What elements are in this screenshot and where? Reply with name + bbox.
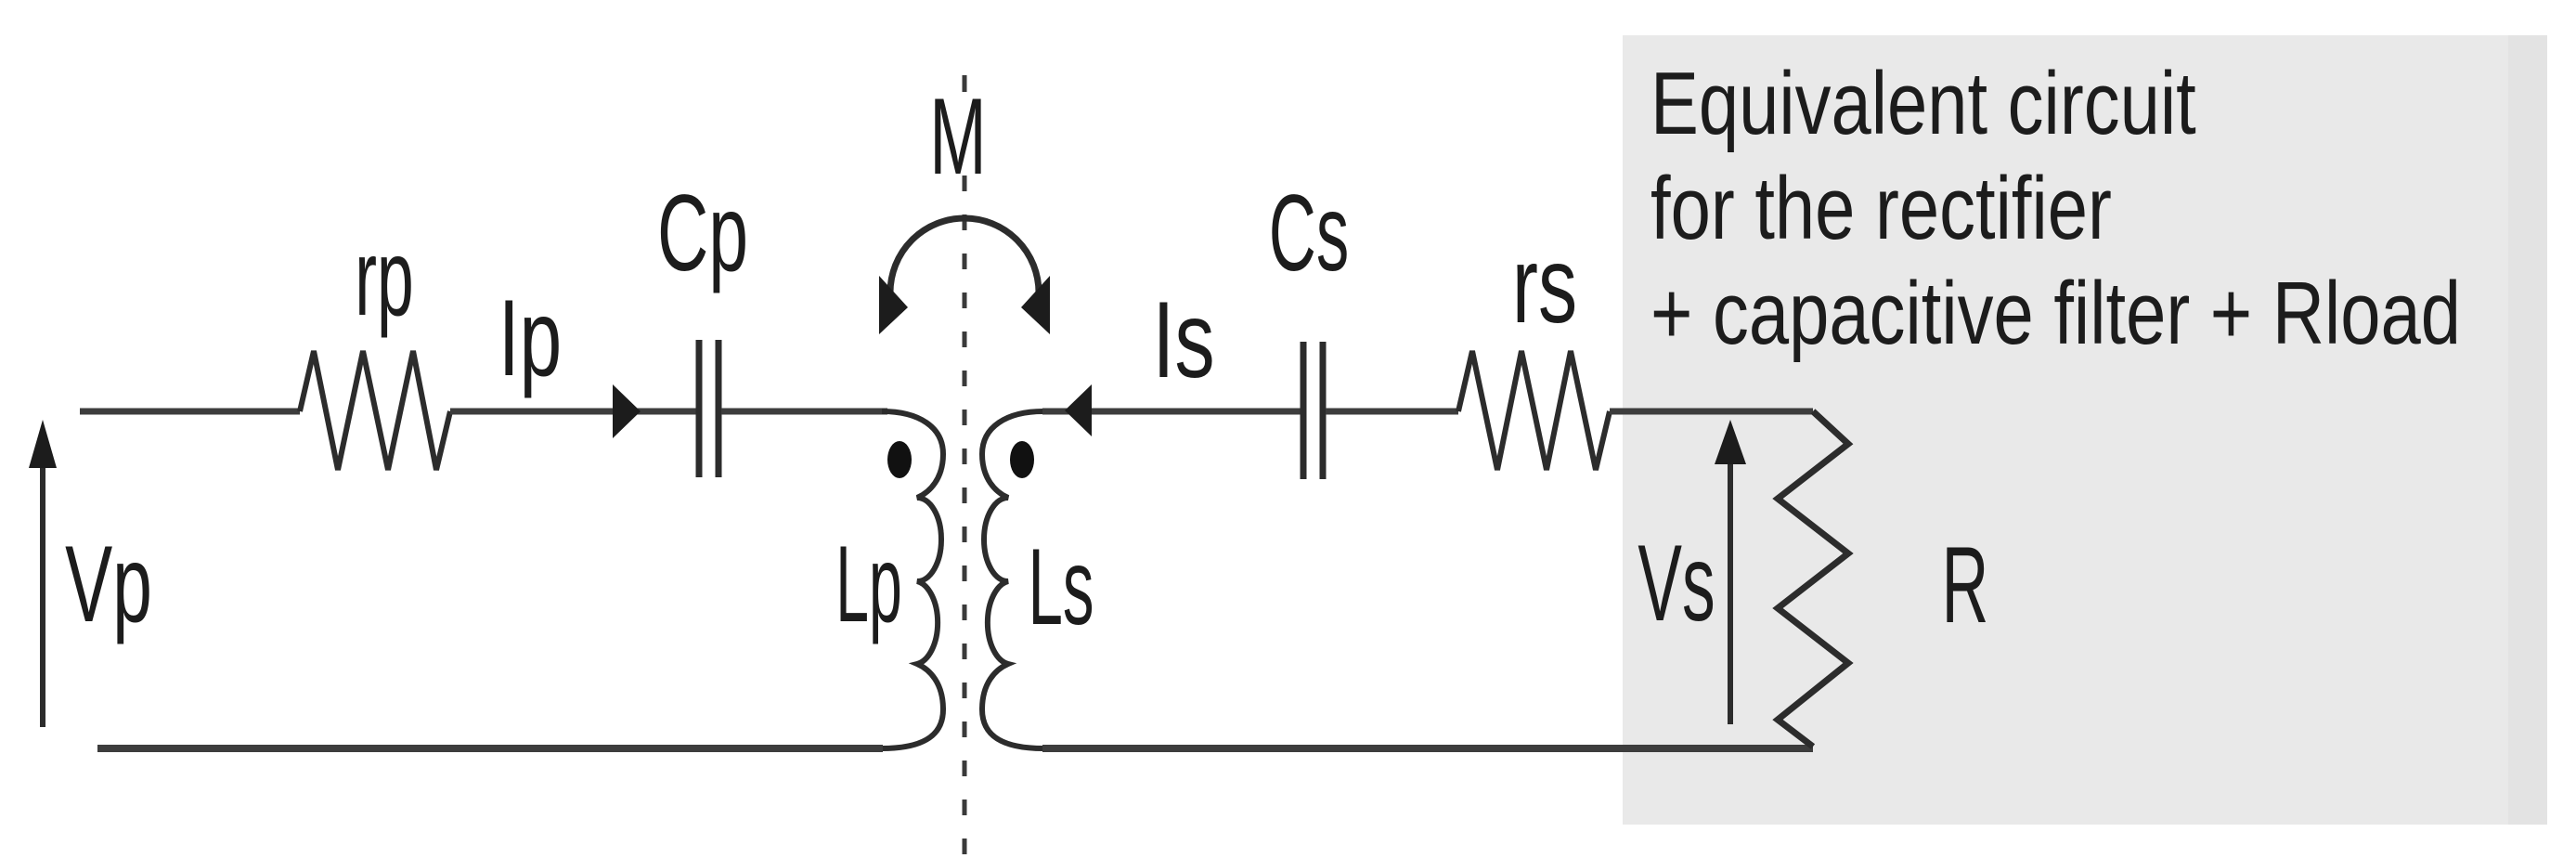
mutual coupling arc M (890, 218, 1039, 292)
svg-text:M: M (929, 75, 986, 198)
svg-text:Ls: Ls (1028, 527, 1094, 648)
resistor rp (300, 351, 450, 470)
polarity dot Ls (1010, 441, 1034, 478)
coupling arrowhead right (1021, 276, 1050, 334)
svg-text:Equivalent circuit: Equivalent circuit (1650, 53, 2196, 153)
label Cp (657, 172, 748, 293)
label R (1942, 526, 1989, 646)
coupling arrowhead left (879, 276, 908, 334)
dashed coupling axis (lower segment) (963, 175, 967, 855)
svg-text:Ip: Ip (498, 279, 562, 399)
label rs (1512, 224, 1577, 345)
Vp source arrow (40, 464, 45, 727)
label rp (355, 216, 413, 339)
label Cs (1269, 173, 1350, 294)
svg-text:Cp: Cp (657, 172, 748, 293)
Is current arrowhead (1065, 384, 1092, 436)
Vs arrow (1728, 464, 1733, 724)
wire: top left (80, 409, 300, 415)
shaded box: equivalent load region (1623, 35, 2547, 825)
caption line 2 (1650, 158, 2112, 258)
polarity dot Lp (887, 441, 912, 478)
caption line 1 (1650, 53, 2196, 153)
wire: Cs to rs (1326, 409, 1458, 415)
svg-text:Lp: Lp (835, 525, 902, 645)
inductor Lp (primary coil) (882, 411, 943, 748)
wire: Ls to Cs (1042, 409, 1301, 415)
resistor rs (1458, 351, 1610, 470)
svg-text:rp: rp (355, 216, 413, 339)
wire: rs to load (1610, 409, 1813, 415)
svg-text:Vp: Vp (65, 523, 152, 644)
svg-text:rs: rs (1512, 224, 1577, 345)
label Vp (65, 523, 152, 644)
wire: bottom right (1042, 745, 1813, 752)
label Ip (498, 279, 562, 399)
dashed coupling axis (upper segment) (963, 75, 967, 92)
capacitor Cp (699, 340, 718, 477)
label Ls (1028, 527, 1094, 648)
wire: rp to Cp (450, 409, 696, 415)
wire: Cp to Lp (721, 409, 887, 415)
svg-text:for the rectifier: for the rectifier (1650, 158, 2112, 258)
label Is (1152, 279, 1214, 400)
resistor R (load, vertical) (1778, 411, 1848, 747)
svg-text:+ capacitive filter + Rload: + capacitive filter + Rload (1650, 263, 2461, 363)
svg-text:Vs: Vs (1638, 522, 1715, 644)
label Vs (1638, 522, 1715, 644)
inductor Ls (secondary coil) (982, 411, 1043, 748)
shaded box edge band (2508, 35, 2547, 825)
capacitor Cs (1303, 342, 1323, 479)
svg-text:Is: Is (1152, 279, 1214, 400)
Ip current arrowhead (613, 384, 641, 438)
svg-text:R: R (1942, 526, 1989, 646)
label M (929, 75, 986, 198)
caption line 3 (1650, 263, 2461, 363)
wire: bottom left (97, 745, 883, 752)
label Lp (835, 525, 902, 645)
svg-text:Cs: Cs (1269, 173, 1350, 294)
